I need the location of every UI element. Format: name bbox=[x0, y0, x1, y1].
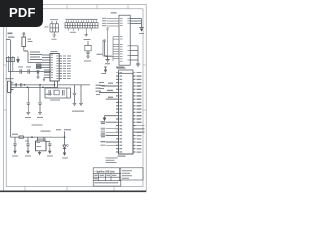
ferrite bead on rail bbox=[19, 136, 24, 138]
labels above caps bbox=[18, 66, 31, 69]
LED D1 diode symbol bbox=[63, 144, 69, 152]
U1 label below ground bbox=[105, 62, 110, 65]
connector JP2 (DB25 header) bbox=[119, 70, 134, 154]
frame tick marks bbox=[4, 5, 147, 192]
PDF badge bbox=[0, 0, 43, 27]
IC U1 (FT232RL) bbox=[119, 15, 130, 65]
resistor network labels left of U2 bbox=[30, 52, 42, 60]
power rail wire bbox=[11, 136, 53, 138]
resistor R2 series in U2 wire bbox=[37, 64, 42, 66]
junction at LED bbox=[64, 136, 66, 138]
R1 ref label bbox=[28, 38, 32, 41]
label C10 bbox=[47, 155, 53, 158]
resistor R1 vertical with VCC bbox=[22, 33, 28, 51]
IC U1 (FT232RL) label bbox=[111, 12, 117, 13]
ground arrow below JP2 pin bbox=[103, 118, 106, 121]
ground arrow C9 bbox=[26, 151, 29, 154]
series capacitors C1 C2 on wire bbox=[8, 69, 51, 73]
capacitor C4 with ground bbox=[79, 90, 83, 106]
wire from U1 bottom pins bbox=[103, 40, 112, 56]
R1 value label bbox=[28, 40, 33, 43]
label below ground bbox=[84, 38, 90, 41]
left vertical power wire bbox=[10, 40, 12, 137]
JP2 right net labels bbox=[137, 72, 142, 152]
labels below C5 C6 bbox=[25, 116, 43, 119]
crystal label bbox=[46, 94, 52, 95]
wires into U2 left bbox=[28, 52, 50, 78]
ground below U1 left bbox=[106, 57, 110, 62]
U2 right pin stubs and labels bbox=[59, 56, 62, 79]
label C7 bbox=[84, 60, 91, 63]
diode D3 to ground bbox=[43, 78, 45, 81]
LED D1 labels bbox=[56, 128, 71, 131]
VCC bar left of U1 bbox=[106, 28, 109, 57]
JP2 reference label bbox=[117, 68, 126, 69]
ferrite bead on rail bbox=[19, 136, 24, 138]
capacitor C10 with ground bbox=[46, 142, 52, 151]
capacitor C10 with ground bbox=[46, 142, 52, 151]
wire from U1 bottom pins bbox=[103, 40, 113, 57]
ground arrow C8 bbox=[13, 151, 16, 154]
diode D2 to ground below U2 wires bbox=[36, 70, 39, 78]
label C9 bbox=[25, 155, 31, 158]
resistor R2 series in U2 wire bbox=[37, 64, 42, 66]
JP2 value label below bbox=[118, 156, 126, 157]
U2 internal pin numbers bbox=[51, 55, 59, 79]
junction at LED bbox=[64, 136, 66, 138]
title block small texts bbox=[94, 170, 132, 183]
ground arrow C9 bbox=[26, 151, 29, 154]
capacitor C12 series on bus bbox=[15, 83, 16, 86]
label C8 bbox=[12, 155, 18, 158]
U1 left net labels bbox=[102, 18, 107, 26]
capacitor C7 mid with ground bbox=[85, 41, 91, 59]
U2 internal pin numbers bbox=[51, 55, 59, 79]
power section note 2 bbox=[41, 131, 51, 132]
sheet bottom edge (dark) bbox=[0, 190, 146, 192]
capacitor C5 below bus with ground bbox=[26, 87, 30, 114]
ground below U1 left bbox=[106, 57, 110, 62]
transistor Q1 area small parts bbox=[7, 56, 15, 72]
capacitor C4 with ground bbox=[79, 90, 83, 106]
junction on rail bbox=[31, 136, 33, 138]
labels above caps bbox=[18, 66, 31, 69]
label C9 bbox=[25, 155, 31, 158]
label C8 bbox=[12, 155, 18, 158]
ground arrow C8 bbox=[13, 151, 16, 154]
JP2 right net labels bbox=[137, 76, 142, 153]
U1 left pin wires bbox=[107, 19, 119, 62]
U2 label above bbox=[51, 50, 58, 53]
capacitor C3 right of crystal with ground bbox=[73, 90, 77, 106]
connector JP1 header top bbox=[65, 23, 98, 28]
power flag arrow bbox=[17, 57, 20, 63]
U1 right lower pins bbox=[130, 46, 138, 64]
resistor R3 series in U2 wire bbox=[37, 67, 42, 69]
capacitor C8 with ground bbox=[13, 137, 17, 150]
connector J2 left edge bbox=[8, 81, 14, 92]
ground right of U1 bottom bbox=[136, 64, 140, 66]
JP1 bottom pin stubs bbox=[69, 28, 92, 32]
crystal label below box bbox=[50, 99, 60, 102]
capacitor C6 below bus with ground bbox=[38, 85, 42, 115]
power flag arrow bbox=[17, 57, 20, 63]
crystal Y1 sub-circuit box bbox=[45, 88, 71, 98]
power section note 2 bbox=[41, 131, 51, 132]
label VCC above C7 bbox=[86, 38, 91, 41]
connector J1 (USB) top bbox=[50, 21, 59, 32]
capacitor C8 with ground bbox=[13, 137, 17, 150]
ground below J1 bbox=[52, 32, 56, 37]
JP2 left net labels bbox=[101, 83, 114, 142]
JP1 pin labels row bbox=[66, 19, 98, 33]
diode D2 to ground below U2 wires bbox=[36, 70, 39, 78]
LED label below bbox=[62, 157, 68, 160]
net label flags near JP2 bbox=[99, 82, 105, 89]
crystal Y1 sub-circuit box bbox=[45, 88, 71, 98]
JP2 right wires to border bbox=[136, 125, 145, 132]
voltage regulator U3 bbox=[36, 137, 47, 151]
label below right ground bbox=[139, 32, 144, 35]
JP2 internal pin numbers bbox=[120, 76, 123, 153]
IC U2 main bbox=[50, 54, 59, 82]
ground below U3 bbox=[39, 151, 41, 152]
sheet frame outer border bbox=[4, 5, 147, 192]
ground right of U1 top bbox=[139, 27, 143, 29]
J1 ground label bbox=[52, 38, 57, 41]
title block revision box bbox=[120, 168, 144, 180]
power flag above JP2 left bbox=[104, 67, 107, 72]
JP2 longer left wires bbox=[99, 86, 116, 145]
label C7 bbox=[84, 60, 91, 63]
R1 ref label bbox=[28, 38, 32, 41]
ground arrow C10 bbox=[48, 151, 51, 154]
JP2 left pin stubs bbox=[116, 76, 119, 152]
sheet frame inner border bbox=[6, 9, 143, 187]
LED D1 vertical wire bbox=[52, 132, 65, 146]
connector JP3 small flags bbox=[96, 85, 102, 95]
JP2 left pin stubs bbox=[116, 73, 119, 152]
U1 right top pins to ground rail bbox=[130, 19, 141, 28]
diode D3 to ground bbox=[43, 78, 45, 81]
labels below C5 C6 bbox=[25, 116, 43, 119]
svg-text:— SparkFun USB Serial: — SparkFun USB Serial bbox=[94, 170, 115, 174]
IC U2 main bbox=[50, 54, 59, 82]
label below right ground bbox=[139, 32, 144, 35]
svg-text:PDF: PDF bbox=[9, 5, 36, 20]
LED D1 labels bbox=[56, 128, 71, 131]
ground below U3 bbox=[39, 151, 41, 152]
power row labels bbox=[12, 134, 29, 142]
capacitor C9 polarized with ground bbox=[26, 137, 30, 150]
JP2 right pin stubs bbox=[133, 73, 136, 152]
label VCC above C7 bbox=[86, 38, 91, 41]
U3 label above bbox=[37, 138, 46, 141]
JP2 right wires to border bbox=[136, 129, 145, 132]
connector J2 label bbox=[6, 77, 14, 80]
capacitor C3 right of crystal with ground bbox=[73, 90, 77, 106]
notes text above title block bbox=[106, 158, 118, 164]
U1 right top pins to ground rail bbox=[130, 19, 141, 28]
connector J2 label bbox=[6, 77, 14, 80]
crystal label below box bbox=[50, 99, 60, 102]
junction at U1 bottom bbox=[107, 56, 108, 57]
capacitor C5 below bus with ground bbox=[26, 87, 30, 114]
capacitor C6 below bus with ground bbox=[38, 85, 42, 115]
wire from U1 bottom pins bbox=[103, 40, 113, 57]
capacitor C9 polarized with ground bbox=[26, 137, 30, 150]
resistor R3 series in U2 wire bbox=[37, 67, 42, 69]
LED D1 diode symbol bbox=[63, 144, 69, 152]
JP2 internal pin numbers bbox=[120, 72, 123, 152]
JP2 reference label bbox=[116, 67, 124, 68]
resistor network labels left of U2 bbox=[30, 52, 42, 60]
ground arrow C10 bbox=[48, 151, 51, 154]
JP2 left net labels bbox=[101, 83, 114, 146]
crystal label bbox=[46, 94, 52, 95]
connector J1 labels bbox=[45, 19, 59, 27]
junction at U1 bottom bbox=[105, 55, 106, 56]
U2 right pin stubs and labels bbox=[59, 56, 62, 79]
resistor R1 vertical with VCC bbox=[22, 33, 28, 51]
power flag label bbox=[102, 72, 107, 75]
wire from border flag bbox=[6, 39, 10, 41]
U2 label above bbox=[51, 50, 58, 53]
ground arrow below LED bbox=[63, 153, 66, 156]
wire bus horizontal bbox=[14, 81, 91, 90]
R1 value label bbox=[28, 40, 33, 43]
JP1 top pin stubs bbox=[66, 20, 96, 22]
junction on rail bbox=[31, 136, 33, 138]
capacitor C13 series on bus bbox=[20, 83, 21, 86]
power row labels bbox=[12, 134, 29, 142]
power section note bbox=[32, 125, 43, 126]
power section note bbox=[32, 125, 43, 126]
net label flags near JP2 bbox=[99, 82, 105, 89]
title block frame bbox=[93, 168, 121, 186]
left vertical power wire bbox=[10, 40, 12, 137]
net flag near left border bbox=[8, 33, 15, 38]
U1 label below ground bbox=[105, 62, 110, 65]
wire bus horizontal bbox=[14, 81, 91, 90]
label C10 bbox=[47, 155, 53, 158]
wire from border flag bbox=[6, 39, 10, 41]
wires into U2 left bbox=[28, 52, 50, 78]
net label near U1 bottom bbox=[97, 53, 103, 56]
U3 label above bbox=[37, 138, 46, 141]
junction node dots bbox=[24, 84, 56, 88]
JP2 value label below bbox=[118, 156, 126, 157]
labels below C3 C4 bbox=[72, 110, 84, 113]
series capacitors C1 C2 on wire bbox=[8, 69, 51, 73]
capacitor C12 series on bus bbox=[15, 83, 16, 86]
power flag above JP2 left bbox=[104, 67, 107, 72]
transistor Q1 area small parts bbox=[7, 56, 15, 72]
U3 internal marks bbox=[37, 142, 42, 147]
labels below C3 C4 bbox=[72, 110, 84, 113]
ground right of U1 bottom bbox=[136, 64, 140, 66]
ground arrow below JP2 pin bbox=[103, 118, 106, 121]
U2 right net labels bbox=[63, 56, 71, 79]
U2 right net labels bbox=[63, 56, 71, 79]
power flag label bbox=[102, 72, 107, 75]
voltage regulator U3 bbox=[36, 137, 47, 151]
U3 internal marks bbox=[37, 142, 42, 147]
junction node dots bbox=[24, 84, 56, 88]
IC U1 internal pin numbers bbox=[120, 18, 130, 62]
ground arrow below LED bbox=[63, 153, 66, 156]
LED D1 vertical wire bbox=[52, 132, 65, 146]
junction at U1 bottom bbox=[107, 56, 108, 57]
capacitor C7 mid with ground bbox=[85, 41, 91, 59]
power rail wire bbox=[11, 136, 53, 138]
connector JP2 (DB25 header) bbox=[119, 73, 134, 154]
JP2 right pin stubs bbox=[133, 76, 136, 152]
U1 right lower pins bbox=[130, 46, 138, 64]
net label near U1 bottom bbox=[97, 53, 103, 56]
LED label below bbox=[62, 157, 68, 160]
ground right of U1 top bbox=[139, 27, 143, 29]
capacitor C13 series on bus bbox=[20, 83, 21, 86]
ground below JP1 bbox=[84, 32, 88, 37]
JP2 longer left wires bbox=[99, 86, 116, 142]
connector J2 left edge bbox=[8, 81, 14, 92]
net flag near left border bbox=[8, 33, 15, 38]
